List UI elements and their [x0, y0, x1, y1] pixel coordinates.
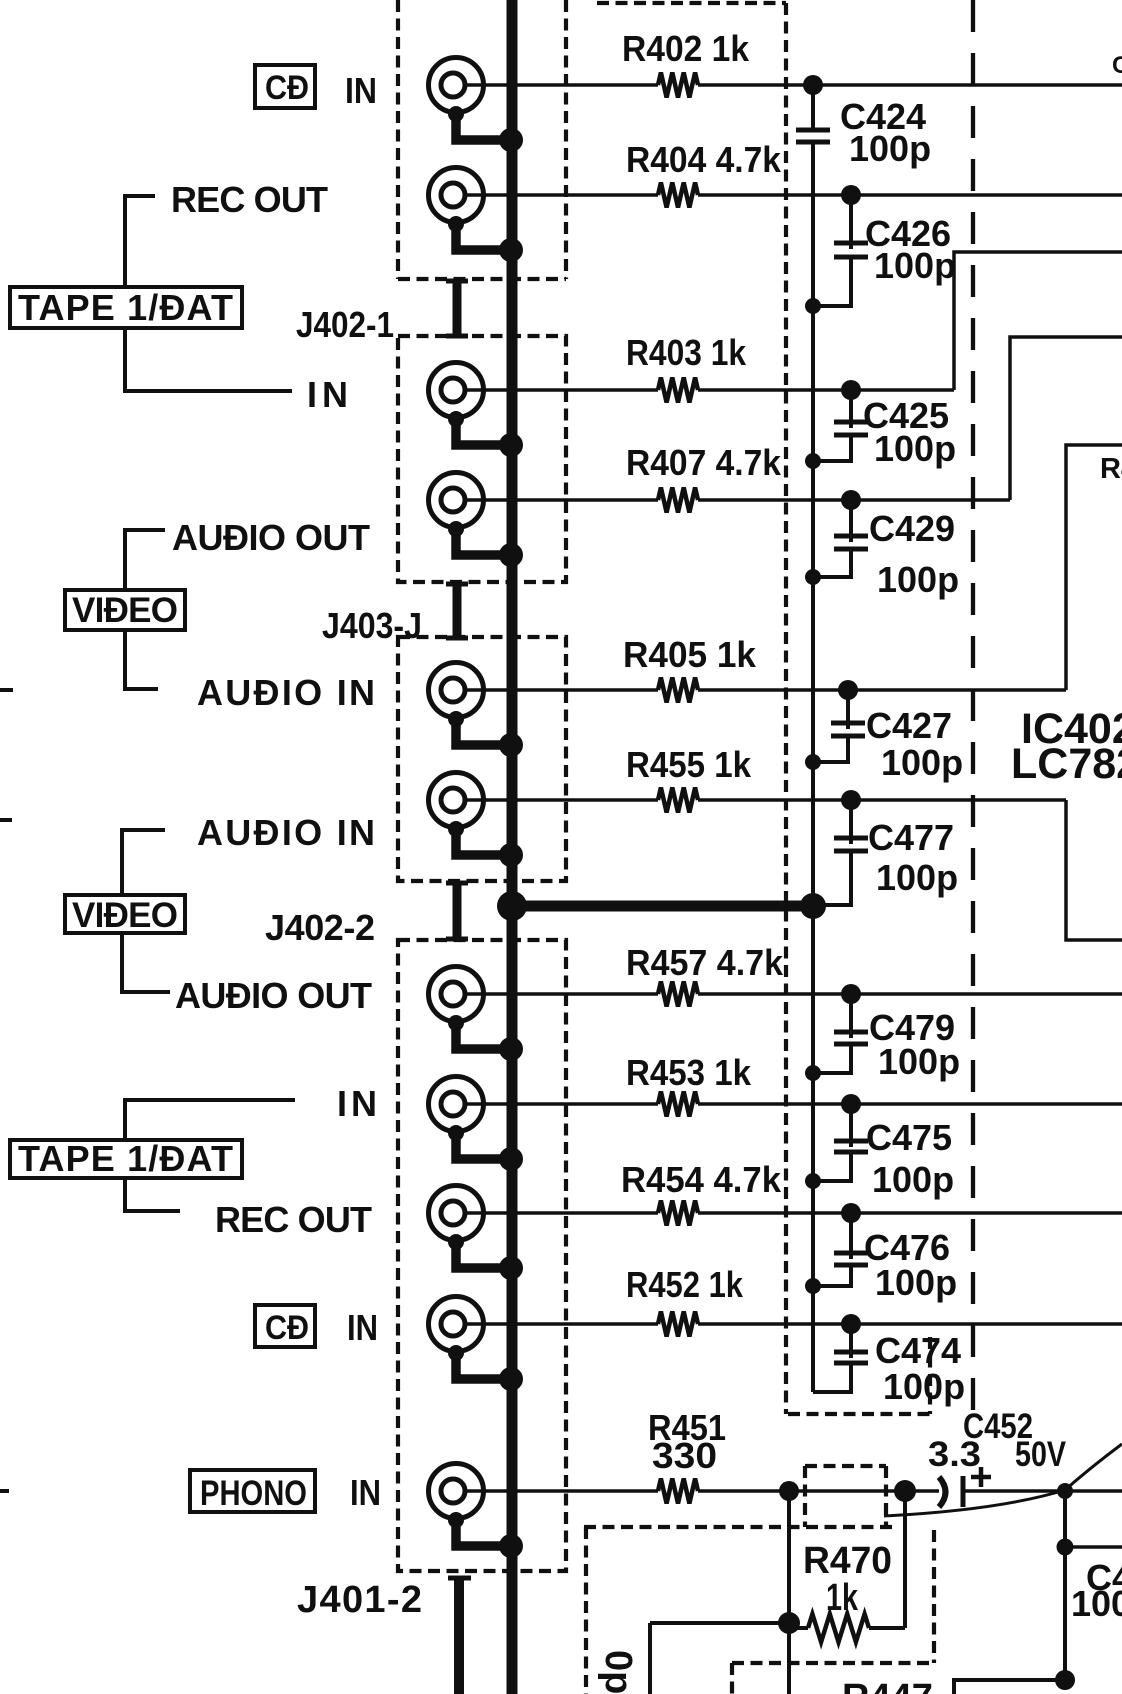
svg-text:1k: 1k	[826, 1577, 859, 1619]
wire bracket VIDEO1	[125, 530, 165, 689]
svg-text:0p: 0p	[597, 1650, 639, 1694]
svg-text:IN: IN	[337, 1083, 377, 1124]
label IN (TAPE1 bottom)	[337, 1083, 377, 1124]
node dots on capacitor ground bus	[805, 298, 821, 1294]
label IN (TAPE1)	[307, 374, 348, 415]
svg-text:PHONO: PHONO	[200, 1474, 307, 1513]
svg-text:LC7822: LC7822	[1011, 740, 1122, 788]
label J403-J	[322, 605, 422, 646]
svg-text:TAPE 1/ÐAT: TAPE 1/ÐAT	[18, 287, 233, 328]
wire row3 TAPE-IN	[467, 252, 1122, 390]
svg-text:J402-2: J402-2	[265, 907, 375, 948]
svg-text:C475: C475	[866, 1117, 952, 1158]
wire capacitor ground bus	[813, 85, 851, 1392]
RCA jack J8 TAPE IN	[429, 1077, 524, 1172]
capacitor C475 100p	[813, 1104, 954, 1200]
svg-text:C4: C4	[1112, 52, 1122, 79]
label J402-2	[265, 907, 375, 948]
wire phono branch verticals	[650, 1491, 905, 1694]
wire dashed board boundary box A (CD/REC OUT jacks)	[398, 0, 566, 279]
RCA jack J6 AUDIO IN	[429, 773, 524, 868]
RCA jack J1 CD IN	[429, 58, 524, 153]
label J402-1	[296, 304, 394, 345]
wire row8 TAPE-IN	[467, 1102, 1122, 1106]
resistor R402 1k	[622, 28, 750, 98]
svg-text:100p: 100p	[878, 1041, 960, 1082]
wire bracket VIDEO2	[122, 830, 170, 992]
svg-text:330: 330	[652, 1435, 717, 1476]
wire long-dash section boundary line	[971, 0, 975, 1414]
svg-text:R403 1k: R403 1k	[626, 332, 747, 373]
wire right bottom branch	[954, 1491, 1122, 1694]
resistor R451 330	[648, 1407, 726, 1504]
resistor R470 1k	[789, 1540, 905, 1642]
IC input network box (partial, right edge)	[1066, 445, 1122, 690]
capacitor C427 100p	[813, 690, 963, 783]
svg-text:R455 1k: R455 1k	[626, 744, 752, 785]
svg-text:100p: 100p	[874, 245, 956, 286]
label AUDIO OUT (video2)	[175, 975, 372, 1016]
wire row2 REC-OUT	[467, 193, 1122, 197]
svg-text:3.3: 3.3	[928, 1435, 981, 1474]
label IN (PHONO)	[350, 1472, 381, 1513]
label AUDIO IN (video1)	[197, 672, 375, 713]
partial label top right	[1112, 52, 1122, 79]
svg-text:50V: 50V	[1015, 1435, 1067, 1474]
svg-text:100p: 100p	[876, 857, 958, 898]
wire curved connection arc	[884, 1444, 1122, 1516]
svg-text:REC OUT: REC OUT	[215, 1199, 372, 1240]
svg-text:R457 4.7k: R457 4.7k	[626, 942, 784, 983]
svg-text:100p: 100p	[877, 559, 959, 600]
label R447 (clipped at bottom)	[842, 1677, 933, 1694]
label REC OUT (bottom)	[215, 1199, 372, 1240]
label R (partial) inside box	[1100, 453, 1122, 485]
wire dashed board boundary box B (TAPE1 jacks)	[398, 336, 566, 582]
svg-text:100p: 100p	[883, 1366, 965, 1407]
svg-text:100p: 100p	[874, 428, 956, 469]
svg-text:VIÐEO: VIÐEO	[72, 591, 178, 630]
capacitor C429 100p	[813, 500, 959, 600]
svg-text:CÐ: CÐ	[265, 1309, 309, 1347]
svg-text:R447: R447	[842, 1677, 933, 1694]
wire dashed boundary around resistor column	[597, 3, 930, 1414]
svg-text:100p: 100p	[881, 742, 963, 783]
wire row11 PHONO	[467, 1489, 1122, 1493]
wire dashed board boundary box D (lower jacks)	[398, 940, 566, 1571]
IC U IC402 LC7822 label	[1011, 705, 1122, 788]
resistor R405 1k	[623, 634, 757, 703]
svg-text:C477: C477	[868, 817, 954, 858]
label AUDIO OUT (video1)	[172, 517, 370, 558]
svg-text:R453 1k: R453 1k	[626, 1052, 752, 1093]
svg-text:R402 1k: R402 1k	[622, 28, 750, 69]
wire dashed board boundary box C (VIDEO audio jacks)	[398, 637, 566, 881]
svg-text:100: 100	[1071, 1583, 1122, 1624]
svg-text:TAPE 1/ÐAT: TAPE 1/ÐAT	[18, 1138, 233, 1179]
capacitor C476 100p	[813, 1213, 957, 1303]
wire row5 AUDIO-IN	[467, 688, 1066, 692]
connector J401-2 board link bar	[448, 1576, 471, 1694]
wire bracket TAPE1 bottom	[125, 1100, 295, 1211]
resistor R457 4.7k	[626, 942, 784, 1007]
label 100p rotated (clipped)	[597, 1650, 639, 1694]
label box VIDEO (1)	[65, 590, 185, 630]
svg-text:AUÐIO OUT: AUÐIO OUT	[172, 517, 370, 558]
connector J403-J board link bar	[446, 584, 468, 638]
wire dashed boundaries bottom area	[584, 1466, 934, 1694]
svg-text:R452 1k: R452 1k	[626, 1264, 744, 1305]
svg-text:IN: IN	[345, 70, 377, 111]
resistor R455 1k	[626, 744, 752, 813]
svg-text:R405 1k: R405 1k	[623, 634, 757, 675]
connector J402-1 board link bar	[446, 281, 468, 336]
label IN (CD top)	[345, 70, 377, 111]
wire bracket TAPE1 top	[125, 196, 292, 391]
RCA jack J10 CD IN	[429, 1297, 524, 1392]
resistor R452 1k	[626, 1264, 744, 1337]
RCA jack J4 AUDIO OUT	[429, 473, 524, 568]
label C45x 100p (clipped)	[1071, 1557, 1122, 1624]
label box VIDEO (2)	[65, 895, 185, 935]
svg-text:R4: R4	[1100, 453, 1122, 485]
svg-text:IN: IN	[347, 1307, 378, 1348]
label box TAPE 1/DAT (top)	[10, 287, 242, 328]
resistor R407 4.7k	[626, 442, 782, 513]
wire row7 AUDIO-OUT	[467, 992, 1122, 996]
svg-text:J401-2: J401-2	[297, 1579, 422, 1621]
capacitor C477 100p	[815, 800, 958, 905]
wire thick ground bus	[507, 0, 518, 1694]
node dots bottom	[778, 1480, 1073, 1634]
RCA jack J7 AUDIO OUT	[429, 967, 524, 1062]
capacitor C452 3.3 50V (polarized)	[928, 1407, 1067, 1507]
capacitor C479 100p	[813, 994, 960, 1082]
wire thick jumper at y=906	[497, 891, 826, 921]
wire row4 AUDIO-OUT	[467, 337, 1122, 500]
RCA jack J5 AUDIO IN	[429, 663, 524, 758]
node junction dots on rows	[803, 75, 861, 1334]
capacitor C424 100p	[796, 96, 931, 169]
RCA jack J2 REC OUT	[429, 168, 524, 263]
svg-text:IN: IN	[307, 374, 348, 415]
capacitor C426 100p	[813, 195, 956, 306]
svg-text:VIÐEO: VIÐEO	[72, 896, 178, 935]
wire row9 REC-OUT	[467, 1211, 1122, 1215]
svg-text:R470: R470	[803, 1540, 892, 1582]
resistor R453 1k	[626, 1052, 752, 1117]
connector J402-2 board link bar	[446, 883, 468, 939]
svg-text:J402-1: J402-1	[296, 304, 394, 345]
capacitor C425 100p	[813, 390, 956, 469]
svg-text:100p: 100p	[875, 1262, 957, 1303]
svg-text:R407 4.7k: R407 4.7k	[626, 442, 782, 483]
resistor R404 4.7k	[626, 139, 782, 208]
RCA jack J9 REC OUT	[429, 1186, 524, 1281]
svg-text:100p: 100p	[849, 128, 931, 169]
svg-text:IN: IN	[350, 1472, 381, 1513]
capacitor C474 100p	[834, 1324, 965, 1407]
svg-text:REC OUT: REC OUT	[171, 179, 328, 220]
svg-text:AUÐIO OUT: AUÐIO OUT	[175, 975, 372, 1016]
label J401-2	[297, 1579, 422, 1621]
RCA jack J3 TAPE IN	[429, 363, 524, 458]
label AUDIO IN (video2)	[197, 812, 375, 853]
svg-text:C427: C427	[866, 705, 952, 746]
svg-text:J403-J: J403-J	[322, 605, 422, 646]
label box CD (top)	[255, 65, 315, 108]
svg-text:C474: C474	[875, 1330, 961, 1371]
wire row10 CD-IN	[467, 1322, 1122, 1326]
label REC OUT (top)	[171, 179, 328, 220]
label IN (CD bottom)	[347, 1307, 378, 1348]
resistor R403 1k	[626, 332, 747, 403]
wire row6 AUDIO-IN	[467, 800, 1122, 940]
label box CD (bottom)	[255, 1305, 315, 1347]
svg-text:100p: 100p	[872, 1159, 954, 1200]
wire left edge stubs	[0, 690, 13, 1491]
label box PHONO	[190, 1470, 315, 1513]
resistor R454 4.7k	[621, 1159, 782, 1226]
wire row1 CD-IN	[467, 83, 1122, 87]
svg-text:R404 4.7k: R404 4.7k	[626, 139, 782, 180]
svg-text:R454 4.7k: R454 4.7k	[621, 1159, 782, 1200]
RCA jack J11 PHONO IN	[429, 1464, 524, 1559]
svg-text:C429: C429	[869, 508, 955, 549]
label box TAPE 1/DAT (bottom)	[10, 1138, 242, 1179]
svg-text:CÐ: CÐ	[265, 69, 309, 107]
